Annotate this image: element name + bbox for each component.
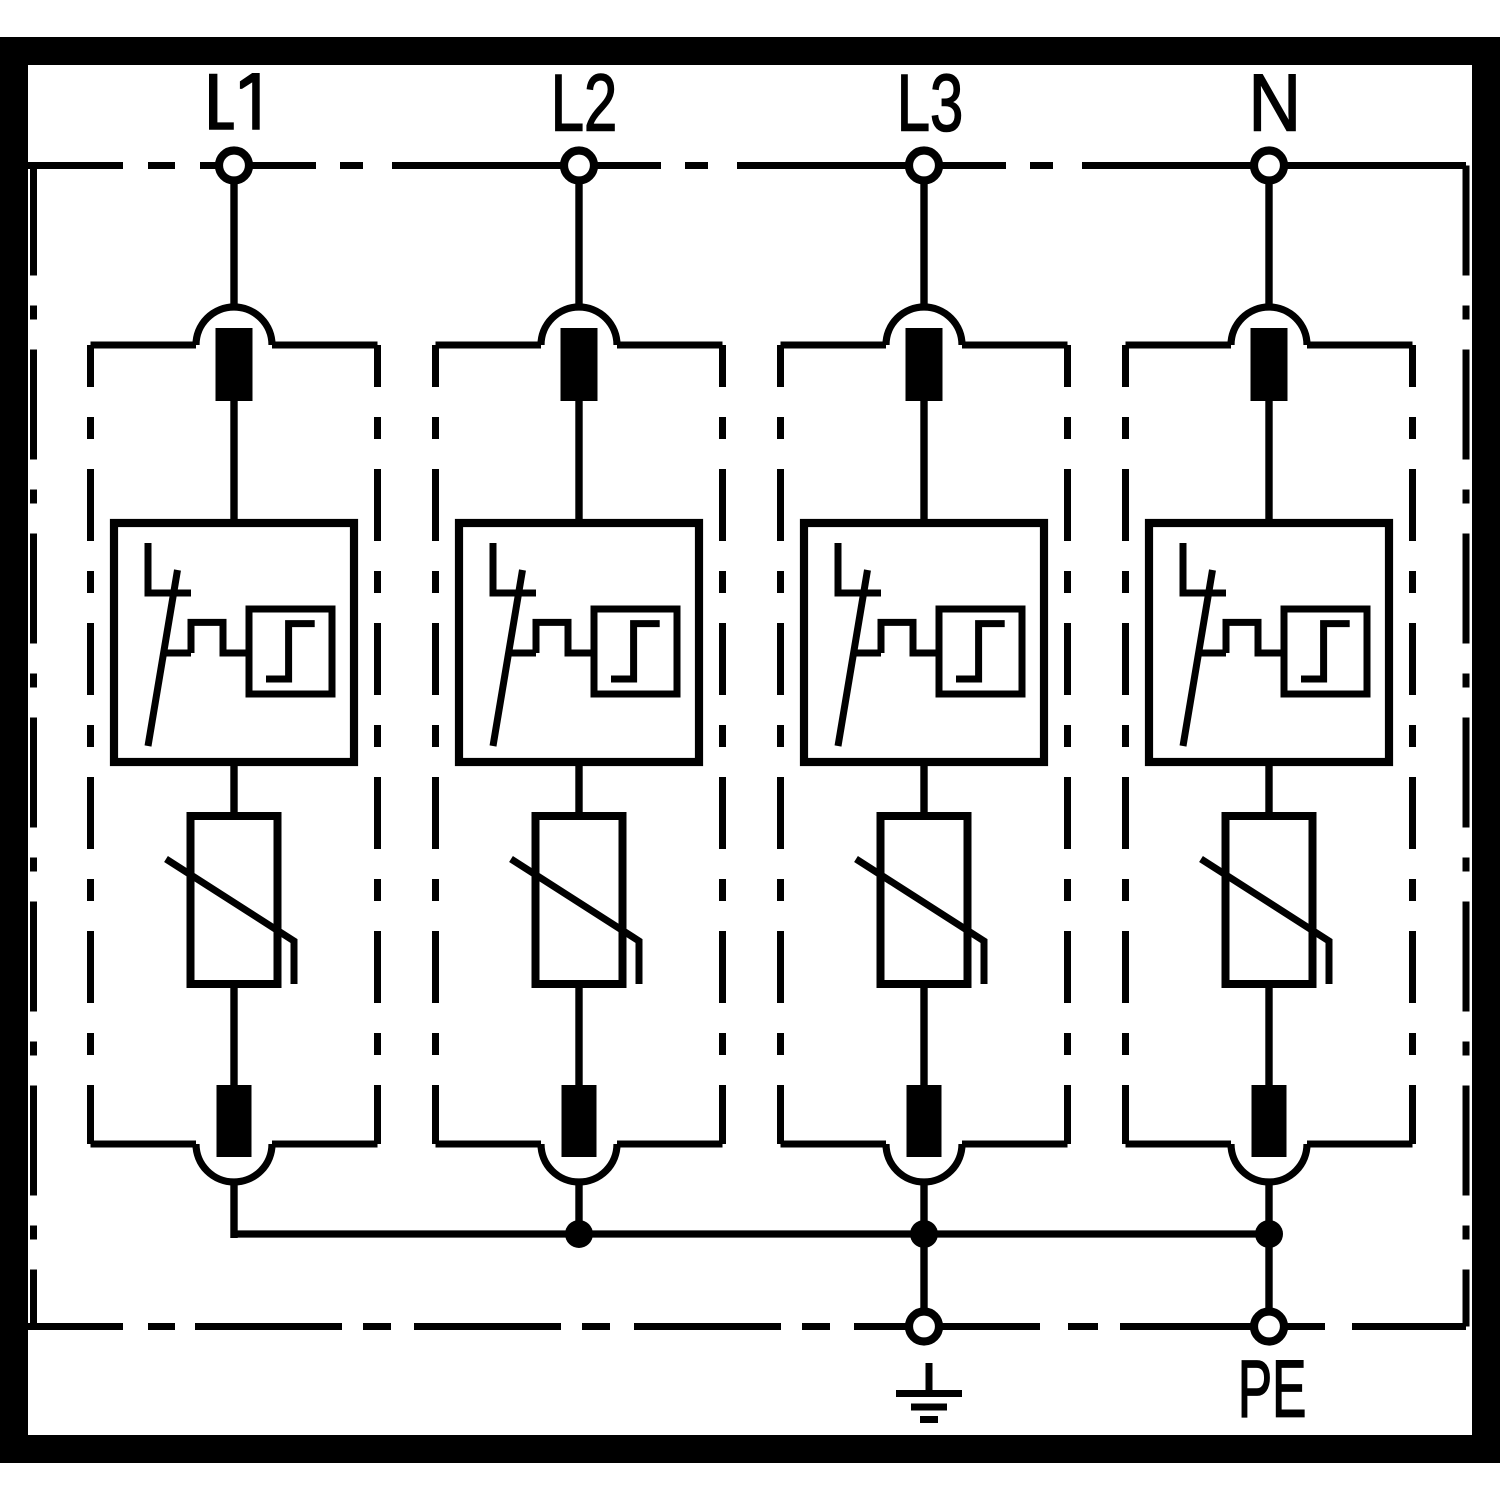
svg-text:PE: PE [1238,1345,1306,1435]
disconnector / monitoring device box U3 [804,523,1044,762]
plug-in contact arc bottom F2 [541,1144,617,1182]
module box bottom edge segments [781,1141,887,1148]
thermal disconnect contact bar (top) F1 [216,328,253,401]
wire bottom contact to PE bus [575,1182,582,1238]
pulse waveform trace [191,622,249,653]
plug-in contact arc bottom F3 [886,1144,962,1182]
wire disconnector to varistor MOV3 [920,762,927,818]
varistor MOV3 body [881,816,968,984]
device enclosure dash-dot boundary: bottom edge [28,1323,1466,1330]
varistor MOV1 body [191,816,278,984]
switch contact symbol inside U4 [1183,543,1226,653]
module box top edge segments [436,342,542,349]
plug-in contact arc top F2 [541,307,617,345]
thermal disconnect contact bar (bottom) F3 [907,1085,942,1157]
wire contact to disconnector box [920,401,927,527]
thermal disconnect contact bar (bottom) F1 [217,1085,252,1157]
signalling box inside U1 [249,609,332,694]
wire junction to earth terminal [920,1234,927,1312]
pulse waveform trace [881,622,939,653]
module box top edge segments [1126,342,1232,349]
disconnector / monitoring device box U4 [1149,523,1389,762]
wire terminal L3 to disconnector F3 [920,183,927,308]
wire varistor to bottom contact [1265,984,1272,1087]
wire contact to disconnector box [230,401,237,527]
terminal PE [1254,1312,1284,1342]
junction node N/PE [1255,1220,1283,1248]
device enclosure dash-dot boundary: right edge [1463,166,1470,1327]
pulse waveform trace [536,622,594,653]
module box top edge segments [781,342,887,349]
device enclosure dash-dot boundary: top edge [28,162,1466,169]
plug-in contact arc top F3 [886,307,962,345]
plug-in contact arc bottom F1 [196,1144,272,1182]
plug-in contact arc top F4 [1231,307,1307,345]
junction node L3/PE [910,1220,938,1248]
terminal N [1254,151,1284,181]
switch contact symbol inside U3 [838,543,881,653]
plug-in contact arc top F1 [196,307,272,345]
thermal disconnect contact bar (top) F2 [561,328,598,401]
wire terminal N to disconnector F4 [1265,183,1272,308]
module box bottom edge segments [1126,1141,1232,1148]
switch blade [148,570,178,746]
switch contact symbol inside U2 [493,543,536,653]
varistor MOV3 diagonal stroke [856,859,984,984]
switch blade [493,570,523,746]
varistor MOV2 body [536,816,623,984]
terminal earth (ground) [909,1312,939,1342]
varistor MOV4 diagonal stroke [1201,859,1329,984]
module box dashed side edges [432,345,439,1144]
switch blade [838,570,868,746]
terminal L3 [909,151,939,181]
wire varistor to bottom contact [575,984,582,1087]
step waveform inside signalling box [956,624,1005,679]
disconnector / monitoring device box U1 [114,523,354,762]
varistor MOV4 body [1226,816,1313,984]
PE bus wire [234,1230,1269,1237]
device enclosure dash-dot boundary: left edge [30,166,37,1327]
signalling box inside U2 [594,609,677,694]
thermal disconnect contact bar (bottom) F2 [562,1085,597,1157]
svg-text:N: N [1248,58,1301,148]
switch contact symbol inside U1 [148,543,191,653]
module box bottom edge segments [436,1141,542,1148]
wire bottom contact to PE bus [230,1182,237,1238]
svg-text:L2: L2 [551,59,617,149]
switch blade [1183,570,1213,746]
step waveform inside signalling box [1301,624,1350,679]
step waveform inside signalling box [266,624,315,679]
thermal disconnect contact bar (top) F3 [906,328,943,401]
varistor MOV2 diagonal stroke [511,859,639,984]
wire varistor to bottom contact [230,984,237,1087]
terminal L1 [219,151,249,181]
pulse waveform trace [1226,622,1284,653]
svg-text:L3: L3 [897,59,963,149]
wire varistor to bottom contact [920,984,927,1087]
ground symbol [896,1363,962,1420]
module box dashed side edges [1122,345,1129,1144]
wire bottom contact to PE bus [920,1182,927,1238]
junction node L2/PE [565,1220,593,1248]
thermal disconnect contact bar (top) F4 [1251,328,1288,401]
wire contact to disconnector box [575,401,582,527]
wire terminal L1 to disconnector F1 [230,183,237,308]
wire disconnector to varistor MOV1 [230,762,237,818]
wire disconnector to varistor MOV4 [1265,762,1272,818]
label L1 [209,74,234,130]
wire bottom contact to PE bus [1265,1182,1272,1238]
module box dashed side edges [87,345,94,1144]
signalling box inside U3 [939,609,1022,694]
signalling box inside U4 [1284,609,1367,694]
thermal disconnect contact bar (bottom) F4 [1252,1085,1287,1157]
terminal L2 [564,151,594,181]
module box top edge segments [91,342,197,349]
wire contact to disconnector box [1265,401,1272,527]
module box bottom edge segments [91,1141,197,1148]
step waveform inside signalling box [611,624,660,679]
wire terminal L2 to disconnector F2 [575,183,582,308]
plug-in contact arc bottom F4 [1231,1144,1307,1182]
disconnector / monitoring device box U2 [459,523,699,762]
varistor MOV1 diagonal stroke [166,859,294,984]
module box dashed side edges [777,345,784,1144]
wire disconnector to varistor MOV2 [575,762,582,818]
wire junction to PE terminal [1265,1234,1272,1312]
